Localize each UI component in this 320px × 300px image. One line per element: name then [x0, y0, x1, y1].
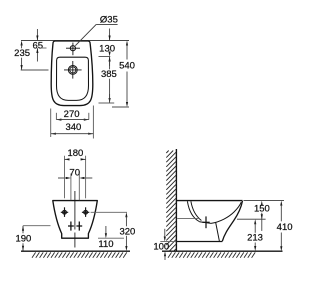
svg-text:180: 180 [67, 148, 83, 159]
svg-text:235: 235 [14, 48, 30, 59]
svg-text:540: 540 [119, 61, 135, 72]
svg-text:65: 65 [33, 40, 44, 51]
svg-text:320: 320 [119, 226, 135, 237]
svg-text:190: 190 [15, 234, 31, 245]
svg-text:270: 270 [64, 109, 80, 120]
svg-text:213: 213 [247, 233, 263, 244]
svg-text:110: 110 [98, 239, 113, 250]
svg-text:100: 100 [153, 242, 169, 253]
svg-text:70: 70 [69, 168, 80, 179]
svg-text:130: 130 [99, 43, 115, 54]
svg-text:385: 385 [101, 69, 117, 80]
svg-text:340: 340 [65, 122, 81, 133]
svg-text:150: 150 [254, 203, 270, 214]
svg-text:410: 410 [277, 222, 293, 233]
svg-text:Ø35: Ø35 [100, 14, 118, 25]
